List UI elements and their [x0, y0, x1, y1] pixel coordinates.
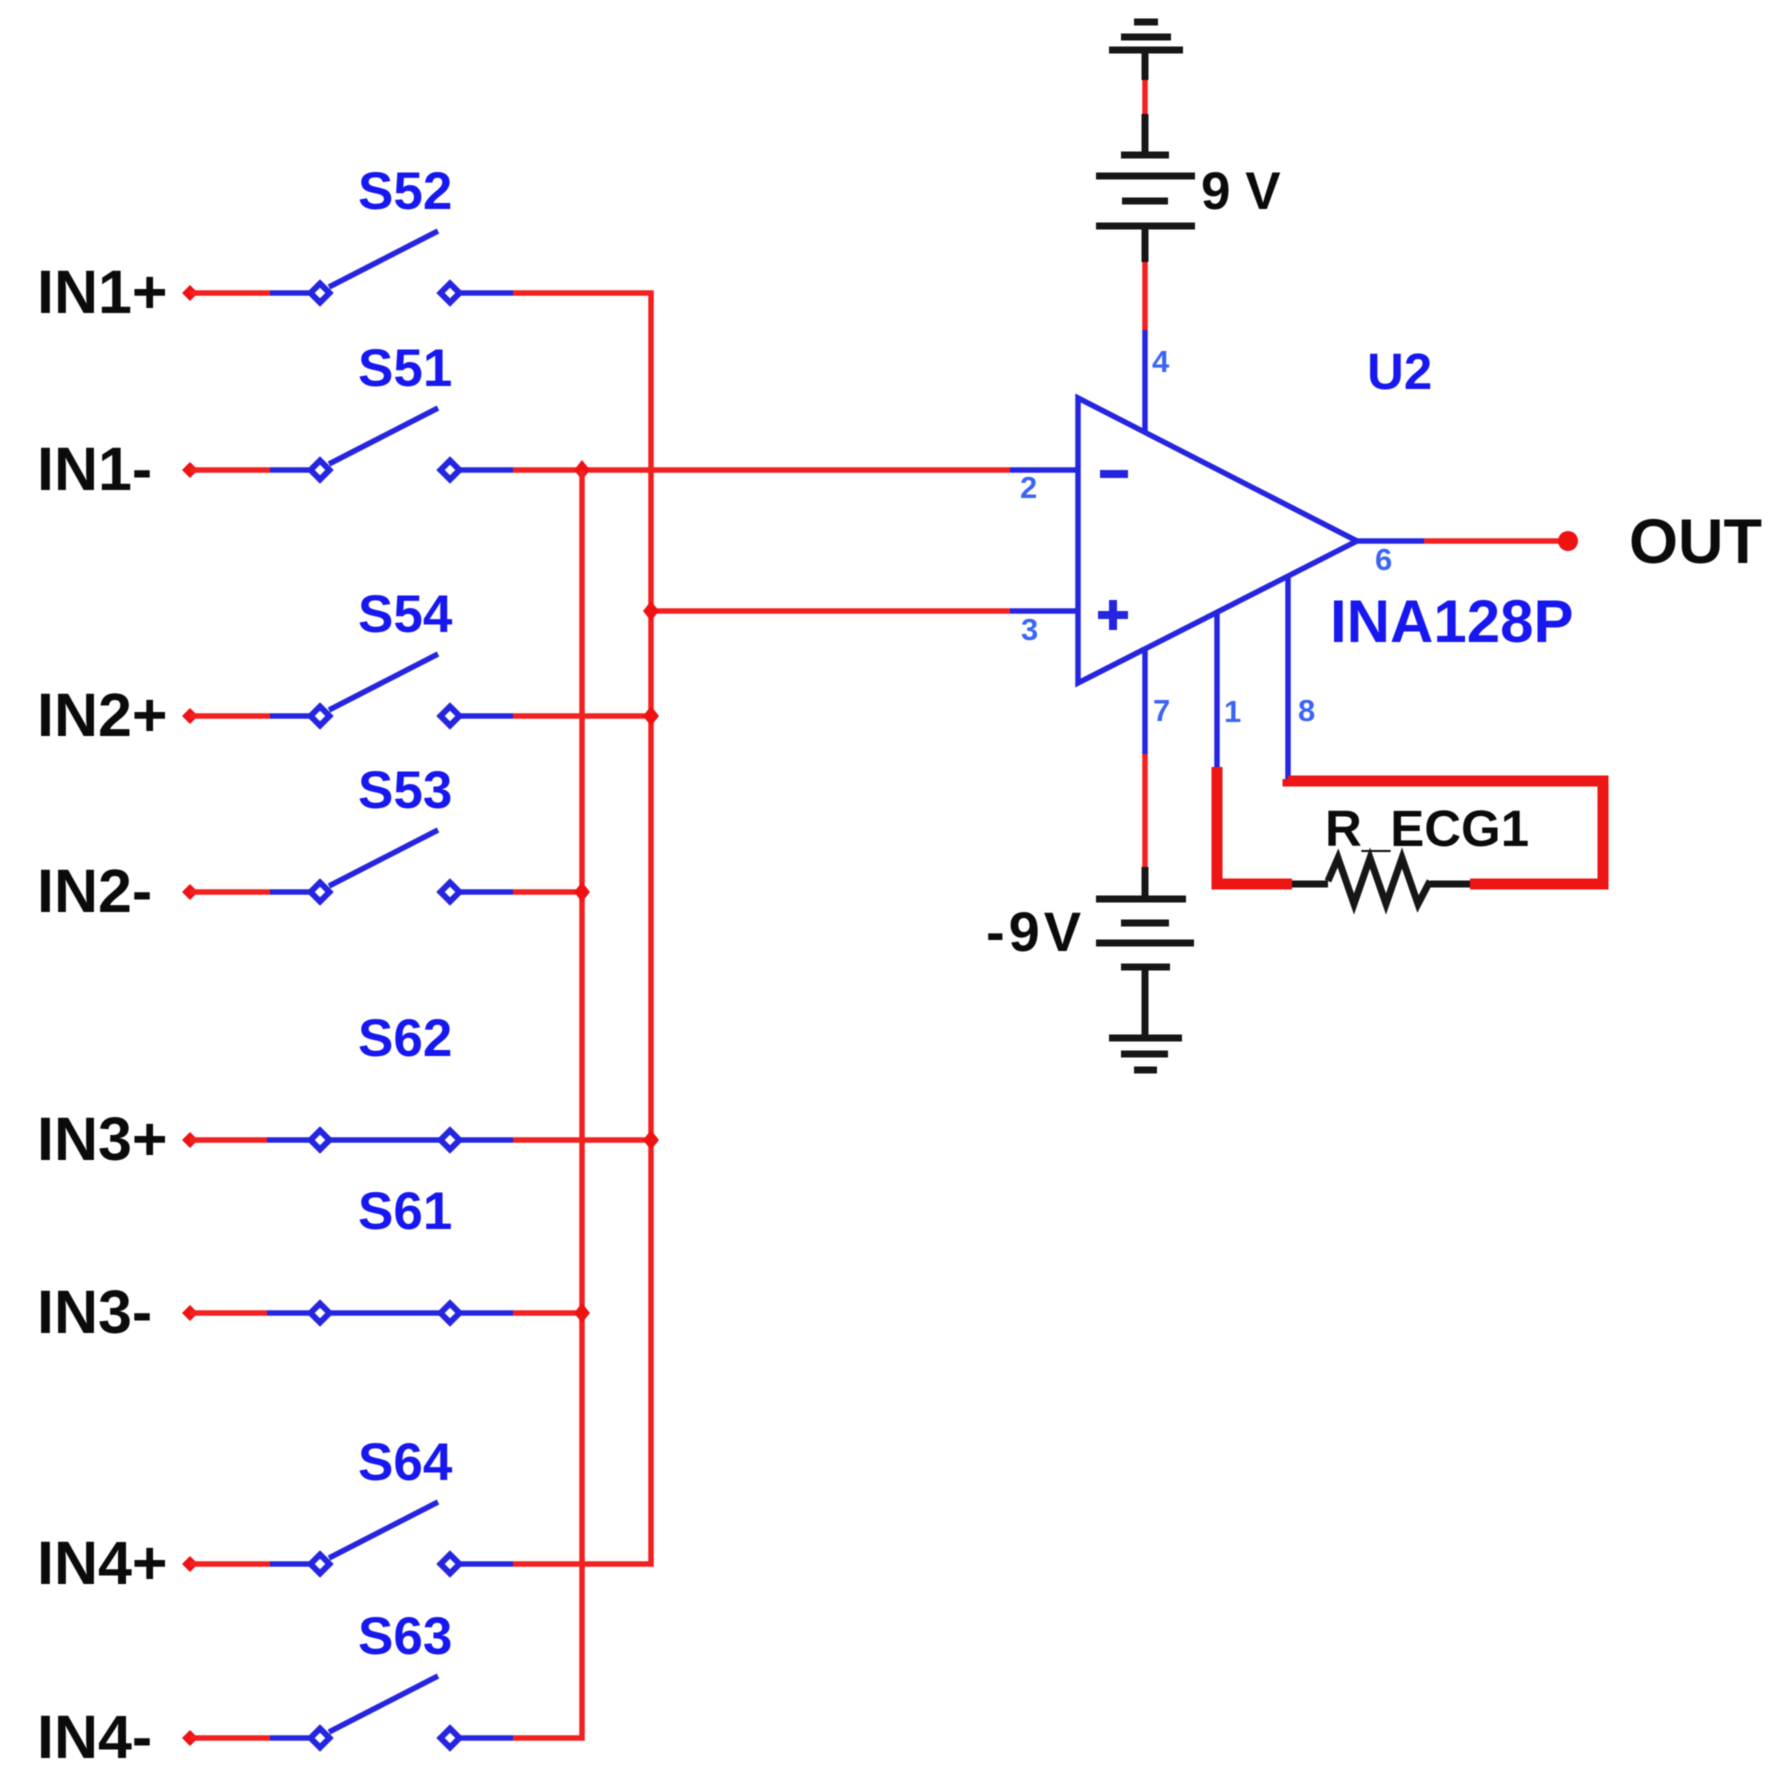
switch S64 contact left [311, 1555, 330, 1574]
wire IN2+ red stub [190, 713, 270, 719]
switch S52 lever [329, 231, 438, 287]
junction IN1- bus B [574, 460, 590, 480]
switch S62 contact left [311, 1131, 330, 1150]
wire op-amp pin 1 blue part [1214, 613, 1220, 767]
switch S63 lever [329, 1676, 438, 1732]
svg-text:S52: S52 [358, 162, 452, 221]
terminal IN2- [182, 884, 198, 900]
svg-text:6: 6 [1375, 542, 1392, 577]
terminal IN4+ [182, 1556, 198, 1572]
wire op-amp pin 8 blue part [1285, 577, 1291, 779]
switch S51 contact left [311, 461, 330, 480]
svg-text:IN2-: IN2- [37, 857, 152, 925]
wire IN2- blue stub right [461, 889, 513, 895]
wire pin 8 to resistor (thick red) [1288, 779, 1603, 884]
svg-text:IN3+: IN3+ [37, 1105, 168, 1173]
switch S63 contact right [441, 1729, 460, 1748]
wire output red part [1424, 538, 1562, 544]
svg-text:S53: S53 [358, 761, 452, 820]
ground top (flipped) [1109, 22, 1183, 80]
wire ground to battery V1 (red) [1142, 80, 1148, 114]
wire IN3- to bus B [513, 1310, 582, 1316]
wire IN1- to op-amp pin 2 (red part) [513, 467, 1010, 473]
svg-text:S61: S61 [358, 1182, 452, 1241]
wire IN4- red stub [190, 1735, 270, 1741]
terminal IN2+ [182, 708, 198, 724]
wire battery V1 to op-amp pin 4 (red) [1142, 262, 1148, 330]
switch S53 lever [329, 830, 438, 886]
svg-text:IN4+: IN4+ [37, 1529, 168, 1597]
wire battery V1 top lead (black) [1142, 114, 1149, 155]
junction IN2+ bus A [643, 706, 659, 726]
svg-text:S54: S54 [358, 585, 453, 644]
svg-text:8: 8 [1298, 693, 1315, 728]
svg-text:IN3-: IN3- [37, 1278, 152, 1346]
wire IN2+ blue stub left [270, 713, 310, 719]
wire IN4- blue stub left [270, 1735, 310, 1741]
svg-text:7: 7 [1153, 693, 1170, 728]
wire IN4- blue stub right [461, 1735, 513, 1741]
junction IN3+ bus A [643, 1130, 659, 1150]
terminal IN1+ [182, 285, 198, 301]
wire IN2- to bus B [513, 889, 582, 895]
switch S52 contact right [441, 284, 460, 303]
terminal IN3+ [182, 1132, 198, 1148]
terminal OUT dot [1558, 531, 1578, 551]
svg-text:S64: S64 [358, 1433, 453, 1492]
switch S63 contact left [311, 1729, 330, 1748]
wire IN2- blue stub left [270, 889, 310, 895]
wire IN1- blue stub left [270, 467, 310, 473]
wire IN1- blue stub right [461, 467, 513, 473]
wire IN4+ red stub [190, 1561, 270, 1567]
switch S62 contact right [441, 1131, 460, 1150]
svg-text:3: 3 [1021, 612, 1038, 647]
terminal IN1- [182, 462, 198, 478]
resistor R_ECG1 body [1292, 858, 1470, 904]
wire IN3- red stub [190, 1310, 267, 1316]
svg-text:U2: U2 [1367, 343, 1432, 400]
svg-text:R_ECG1: R_ECG1 [1325, 800, 1529, 857]
svg-text:INA128P: INA128P [1330, 588, 1573, 655]
switch S54 contact left [311, 707, 330, 726]
ground bottom [1109, 1038, 1182, 1070]
switch S62 closed blade [267, 1137, 513, 1143]
wire IN1+ blue stub left [270, 290, 310, 296]
wire IN4+ blue stub left [270, 1561, 310, 1567]
wire battery V2 top lead (black) [1142, 867, 1149, 899]
wire bus B vertical (corner at IN4-) [513, 470, 582, 1738]
op-amp U2 minus symbol [1100, 470, 1128, 478]
wire op-amp pin 7 blue part [1142, 650, 1148, 754]
wire op-amp pin 6 output blue part [1357, 538, 1424, 544]
battery V1 9V plates [1096, 155, 1195, 262]
switch S54 lever [329, 654, 438, 710]
switch S51 lever [329, 408, 438, 464]
terminal IN3- [182, 1305, 198, 1321]
wire IN1+ to bus A (corner) [513, 293, 651, 1564]
switch S61 contact left [311, 1304, 330, 1323]
battery V2 -9V plates [1096, 899, 1194, 1038]
junction IN2- bus B [574, 882, 590, 902]
svg-text:9 V: 9 V [1201, 162, 1281, 221]
wire IN2+ blue stub right [461, 713, 513, 719]
svg-text:IN1+: IN1+ [37, 258, 168, 326]
svg-text:S62: S62 [358, 1009, 452, 1068]
switch S54 contact right [441, 707, 460, 726]
svg-text:S63: S63 [358, 1607, 452, 1666]
wire IN1- red stub [190, 467, 270, 473]
switch S64 lever [329, 1502, 438, 1558]
switch S61 contact right [441, 1304, 460, 1323]
wire op-amp pin 7 to battery V2 (red) [1142, 754, 1148, 867]
svg-text:IN4-: IN4- [37, 1703, 152, 1771]
wire op-amp pin 4 blue part [1142, 330, 1148, 434]
svg-text:OUT: OUT [1629, 507, 1762, 577]
wire IN2- red stub [190, 889, 270, 895]
switch S52 contact left [311, 284, 330, 303]
svg-text:1: 1 [1224, 694, 1241, 729]
wire pin 1 to resistor (thick red) [1217, 767, 1292, 884]
switch S51 contact right [441, 461, 460, 480]
svg-text:2: 2 [1020, 470, 1037, 505]
switch S61 closed blade [267, 1310, 513, 1316]
wire IN1+ red stub [190, 290, 270, 296]
svg-text:IN2+: IN2+ [37, 681, 168, 749]
op-amp U2 plus symbol [1098, 600, 1128, 630]
wire IN3+ red stub [190, 1137, 267, 1143]
junction IN3- bus B [574, 1303, 590, 1323]
junction pin3 bus A [643, 601, 659, 621]
wire op-amp pin 2 blue part [1010, 467, 1078, 473]
wire op-amp pin 3 red part [651, 608, 1010, 614]
svg-text:4: 4 [1152, 344, 1170, 379]
wire IN3+ to bus A [513, 1137, 651, 1143]
wire op-amp pin 3 blue part [1010, 608, 1078, 614]
wire IN2+ to bus A [513, 713, 651, 719]
switch S53 contact left [311, 883, 330, 902]
wire IN1+ blue stub right [461, 290, 513, 296]
terminal IN4- [182, 1730, 198, 1746]
svg-text:-9V: -9V [986, 900, 1085, 963]
switch S64 contact right [441, 1555, 460, 1574]
op-amp U2 triangle [1078, 398, 1357, 683]
svg-text:IN1-: IN1- [37, 435, 152, 503]
switch S53 contact right [441, 883, 460, 902]
wire IN4+ blue stub right [461, 1561, 513, 1567]
svg-text:S51: S51 [358, 339, 452, 398]
